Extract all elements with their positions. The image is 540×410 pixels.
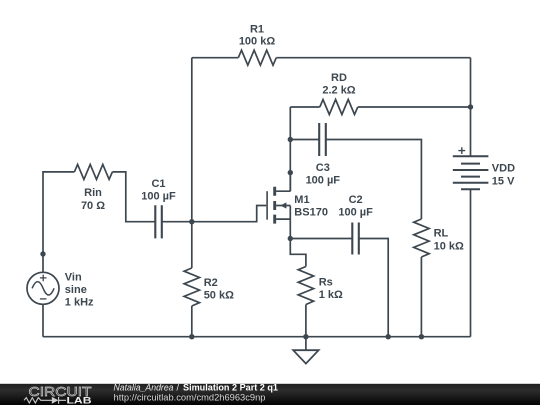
wire source to C2 [290, 238, 352, 240]
wire RL bottom lead [420, 257, 422, 337]
node gate junction [189, 219, 194, 224]
node R2-ground junction [189, 334, 194, 339]
transistor M1 (NMOS BS170) [267, 173, 290, 239]
node C2-ground junction [386, 334, 391, 339]
svg-text:C2: C2 [349, 194, 363, 206]
svg-text:C3: C3 [316, 162, 330, 174]
resistor R2 [191, 222, 193, 268]
svg-text:http://circuitlab.com/cmd2h696: http://circuitlab.com/cmd2h6963c9np [114, 393, 266, 403]
svg-text:BS170: BS170 [294, 206, 328, 218]
svg-text:1 kHz: 1 kHz [65, 297, 94, 309]
wire bottom ground rail [43, 336, 471, 338]
wire VDD vertical (top corner to battery + plate) [470, 58, 472, 157]
wire top rail right segment (R1 right lead to VDD corner) [276, 57, 470, 59]
svg-text:M1: M1 [294, 194, 309, 206]
svg-text:Rs: Rs [319, 277, 333, 289]
footer bar [0, 384, 540, 405]
wire source to Rs [290, 239, 306, 267]
svg-text:R2: R2 [204, 277, 218, 289]
svg-text:1 kΩ: 1 kΩ [319, 289, 343, 301]
svg-text:100 µF: 100 µF [141, 190, 176, 202]
wire top rail left segment (R1 left lead) [192, 57, 239, 59]
wire left vertical (top rail to gate junction) [191, 58, 193, 222]
battery plus sign [458, 147, 465, 154]
node Rs-ground junction [303, 334, 308, 339]
svg-text:100 kΩ: 100 kΩ [239, 36, 276, 48]
node drain-C3 junction [288, 137, 293, 142]
wire C1 to gate junction [162, 221, 192, 223]
svg-text:100 µF: 100 µF [306, 175, 341, 187]
svg-text:Natalia_Andrea: Natalia_Andrea [114, 382, 174, 392]
node M1 source pin [288, 236, 293, 241]
wire RD left lead [290, 106, 320, 108]
svg-text:C1: C1 [151, 178, 165, 190]
node RL-ground junction [419, 334, 424, 339]
svg-text:70 Ω: 70 Ω [81, 200, 105, 212]
resistor Rin [74, 164, 112, 179]
svg-text:Rin: Rin [84, 187, 102, 199]
source Vin (sine) [27, 254, 59, 337]
svg-text:100 µF: 100 µF [338, 206, 373, 218]
wire C3 left lead [290, 139, 319, 141]
ground [293, 337, 318, 364]
svg-text:10 kΩ: 10 kΩ [434, 240, 464, 252]
wire input net: Vin to Rin [43, 172, 74, 254]
capacitor C2 [352, 223, 359, 255]
svg-text:Vin: Vin [65, 272, 82, 284]
capacitor C3 [319, 123, 326, 156]
wire gate lead [192, 206, 266, 222]
svg-text:RL: RL [434, 228, 449, 240]
wire drain vertical (RD elbow down to M1 drain) [289, 107, 291, 191]
wire Rin to C1 [112, 172, 155, 222]
svg-text:15 V: 15 V [492, 176, 515, 188]
wire C3 right lead to RL top [326, 140, 422, 220]
capacitor C1 [155, 205, 162, 238]
svg-text:sine: sine [65, 284, 87, 296]
svg-text:VDD: VDD [492, 163, 515, 175]
battery VDD [453, 156, 489, 189]
wire RD right lead to VDD junction [358, 106, 471, 108]
resistor RL [414, 219, 429, 257]
resistor Rs [298, 267, 313, 305]
node M1 drain pin [288, 170, 293, 175]
resistor R1 [238, 50, 276, 65]
wire Rs bottom lead [305, 305, 307, 337]
wire VDD bottom lead [470, 189, 472, 337]
resistor RD [320, 100, 358, 115]
svg-text:Simulation 2 Part 2 q1: Simulation 2 Part 2 q1 [183, 382, 278, 392]
svg-text:R1: R1 [250, 23, 264, 35]
svg-text:2.2 kΩ: 2.2 kΩ [322, 84, 355, 96]
logo resistor squiggle and diode [24, 397, 66, 404]
svg-text:RD: RD [331, 72, 347, 84]
svg-text:LAB: LAB [67, 395, 92, 405]
wire C2 to ground rail [359, 239, 388, 337]
node RD-VDD junction [468, 104, 473, 109]
node Vin top pin [40, 251, 45, 256]
svg-text:50 kΩ: 50 kΩ [204, 290, 234, 302]
